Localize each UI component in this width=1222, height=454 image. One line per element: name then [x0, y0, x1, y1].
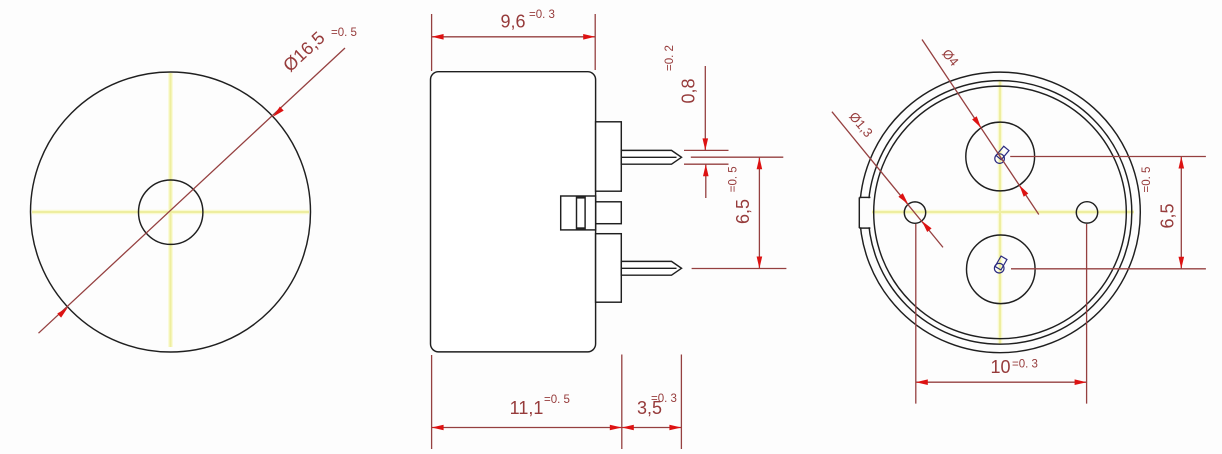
svg-text:=0. 2: =0. 2 — [664, 45, 676, 71]
svg-text:0,8: 0,8 — [679, 78, 699, 103]
svg-text:=0. 5: =0. 5 — [1141, 167, 1153, 193]
svg-text:=0. 5: =0. 5 — [331, 27, 357, 39]
svg-text:9,6: 9,6 — [500, 12, 525, 32]
svg-text:=0. 5: =0. 5 — [544, 394, 570, 406]
svg-text:=0. 3: =0. 3 — [1012, 359, 1038, 371]
svg-text:=0. 5: =0. 5 — [728, 166, 740, 192]
svg-text:6,5: 6,5 — [1158, 203, 1178, 228]
svg-text:=0. 3: =0. 3 — [529, 9, 555, 21]
svg-text:=0. 3: =0. 3 — [651, 393, 677, 405]
svg-text:11,1: 11,1 — [510, 398, 544, 418]
svg-text:6,5: 6,5 — [733, 199, 753, 224]
svg-text:10: 10 — [990, 357, 1010, 377]
